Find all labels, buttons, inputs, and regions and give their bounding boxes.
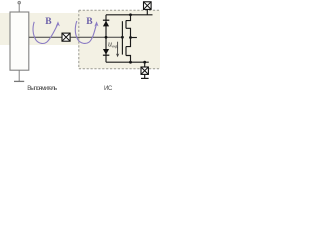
B field arrow 2 <box>94 21 98 26</box>
node: rail-drain junction Q1 <box>129 13 132 16</box>
bottom rail <box>106 61 149 63</box>
B field loop 2 <box>75 21 96 43</box>
transistor Q1 (top MOSFET) <box>122 15 130 38</box>
antenna rod: top stem <box>18 4 20 12</box>
node: bottom terminal junction <box>143 61 146 64</box>
antenna rod: top pin circle <box>18 1 21 4</box>
node: gate wire junction <box>121 36 124 39</box>
B field arrow 1 <box>56 21 60 26</box>
antenna rod body <box>10 12 29 70</box>
B field loop 1 <box>33 22 58 44</box>
terminal bottom stem <box>144 74 146 78</box>
svg-text:Выпрямитель: Выпрямитель <box>27 85 57 90</box>
node: drain Q2 bottom rail junction <box>129 61 132 64</box>
diode D2 (cathode bar down) <box>103 49 109 56</box>
svg-text:B: B <box>86 17 93 27</box>
background band (field region tint) <box>0 13 79 45</box>
IC dashed box fill <box>79 10 160 69</box>
antenna rod: bottom stem <box>18 70 20 81</box>
IC dashed box border <box>79 10 160 69</box>
diode D1 (cathode bar up) <box>103 20 109 27</box>
wire bottom rail to terminal <box>144 62 146 66</box>
antenna rod: base bar <box>14 80 24 82</box>
transistor Q2 (bottom MOSFET) <box>122 38 130 63</box>
wire rod to coupling element <box>29 36 62 38</box>
node: antenna wire / diode junction <box>105 36 108 39</box>
wire terminal top to rail <box>146 9 148 14</box>
gate wire (both gates to antenna wire) <box>121 28 123 47</box>
terminal bottom (crossed box) <box>141 67 148 74</box>
terminal bottom base bar <box>141 77 149 79</box>
diode chain vertical (upper) <box>105 15 107 62</box>
source output stub <box>131 37 137 39</box>
terminal top (crossed box) <box>144 2 152 10</box>
svg-text:ИС: ИС <box>104 85 113 90</box>
node: source junction <box>129 36 132 39</box>
svg-text:инд: инд <box>112 44 118 48</box>
top rail <box>106 14 153 16</box>
u_ind arrow (down) <box>117 42 119 55</box>
coupling element (crossed box) <box>62 33 70 41</box>
svg-text:B: B <box>45 17 52 27</box>
wire coupling element to IC <box>70 36 122 38</box>
